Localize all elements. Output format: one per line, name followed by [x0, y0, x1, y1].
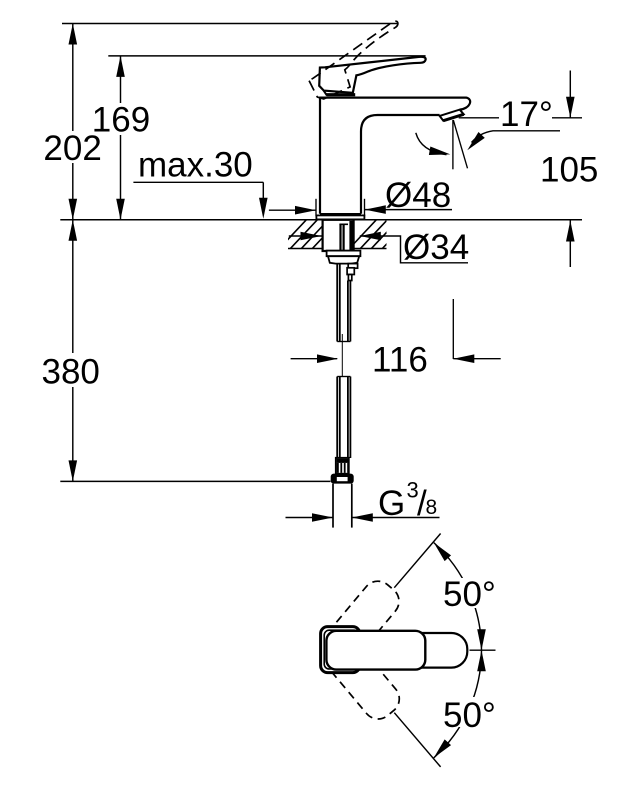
counter / mounting plane line [60, 219, 582, 221]
handle base foot [324, 91, 327, 96]
mounting nut [328, 256, 359, 263]
counter bottom lines [288, 248, 323, 250]
handle (side view, solid) [319, 57, 425, 93]
upper 50° leg line [394, 534, 440, 588]
centerline at lever tip [470, 649, 496, 651]
shank inner tubes [339, 224, 341, 251]
G3/8 threaded pipe [332, 484, 334, 528]
hose end ribbed connector [336, 458, 349, 474]
lower 50° arc [434, 650, 482, 758]
svg-text:169: 169 [92, 101, 150, 140]
spout nozzle [440, 110, 464, 121]
max.30 leader [133, 181, 263, 183]
svg-text:Ø34: Ø34 [403, 228, 469, 267]
hose end nut [331, 474, 354, 484]
svg-text:17°: 17° [500, 95, 553, 134]
handle cap (top view) [321, 627, 360, 673]
top reference line (202 upper datum) [62, 23, 397, 25]
dashed handle (raised position, side view) [303, 20, 414, 103]
mounting shank [323, 220, 354, 251]
svg-text:G: G [378, 484, 405, 523]
flex hose lower segment [337, 377, 350, 459]
dimension G3/8 [286, 517, 334, 519]
flex hose upper segment [337, 264, 350, 342]
supply stub steps [348, 264, 357, 269]
dimension 169 line [120, 56, 122, 220]
faucet body outline [319, 98, 470, 214]
svg-text:380: 380 [41, 353, 99, 392]
lower 50° leg line [394, 713, 440, 767]
counter hatching right [348, 218, 411, 250]
upper 50° arc [434, 543, 482, 651]
hose break centerline [341, 334, 343, 377]
380 lower reference line [60, 480, 330, 482]
dashed handle rotated down 50° [318, 632, 405, 725]
svg-text:Ø48: Ø48 [385, 176, 451, 215]
svg-text:50°: 50° [443, 696, 496, 735]
17° leader [472, 131, 561, 143]
dimension Ø34 [289, 235, 322, 237]
svg-text:50°: 50° [443, 575, 496, 614]
counter hatching left [278, 218, 341, 250]
washer below counter [327, 251, 361, 257]
handle base thick band [327, 93, 356, 96]
svg-text:max.30: max.30 [138, 146, 253, 185]
dimension 380 line [72, 220, 74, 482]
handle grip (top view) [326, 631, 425, 670]
svg-text:116: 116 [372, 341, 428, 380]
lever extension (top view) [390, 633, 467, 668]
dashed handle rotated up 50° [318, 575, 405, 668]
dimension Ø48 [315, 199, 317, 217]
17° left arc arrow [416, 133, 447, 155]
169 reference line [108, 55, 425, 57]
svg-text:8: 8 [426, 496, 438, 519]
column bottom line [320, 213, 361, 215]
dimension 105 [569, 71, 571, 118]
17° angle lines at spout [452, 120, 454, 169]
base flange [316, 215, 364, 219]
105 extension line at spout level [459, 117, 582, 119]
svg-text:105: 105 [540, 151, 598, 190]
dimension 202 line [72, 24, 74, 220]
dimension 116 [291, 358, 338, 360]
